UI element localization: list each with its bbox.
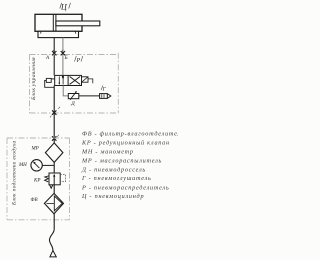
svg-text:Д: Д [70,101,75,107]
svg-text:Блок управления: Блок управления [31,57,37,101]
right position: crossed arrows [70,77,81,85]
svg-text:МН - манометр: МН - манометр [81,149,134,156]
node connection X (pipe Б at block boundary) [61,51,65,55]
wire throttle to muffler [79,95,100,97]
wire pipe A (cylinder to valve, supply side) [53,38,55,76]
svg-text:КР - редукционный клапан: КР - редукционный клапан [81,139,170,146]
wire trunk (lubricator to regulator) [53,162,55,173]
svg-text:Р: Р [76,58,81,64]
exhaust vent [50,185,53,188]
flexible hose to source [49,230,54,251]
label Г [101,86,107,93]
svg-text:Б: Б [64,56,68,61]
svg-text:ФВ - фильтр-влагоотделитель: ФВ - фильтр-влагоотделитель [82,131,178,138]
wire trunk (regulator to filter) [53,185,55,194]
wire trunk (filter to air inlet) [53,214,55,230]
label Ц (cylinder designator) [60,3,71,12]
svg-text:МН: МН [18,163,27,168]
node label А [45,50,54,61]
svg-text:МР: МР [31,147,39,152]
svg-text:Блок подготовки воздуха: Блок подготовки воздуха [10,141,17,206]
piston [52,14,54,31]
wire exhaust (valve to throttle) [63,86,68,96]
filter ФВ (diamond with separator) [44,193,63,213]
pressure regulator КР [45,173,66,188]
wire trunk (valve to air-prep unit) [53,86,55,143]
node connection X (trunk at control block lower boundary) [52,110,56,114]
control block enclosure (dash-dot) [30,53,119,113]
svg-text:МР - маслораспылитель: МР - маслораспылитель [81,158,162,165]
pressure gauge МН [31,160,42,171]
svg-text:Г - пневмоглушитель: Г - пневмоглушитель [81,175,152,182]
wire pipe Б (cylinder to valve, rod side) [62,38,64,76]
left position: parallel arrows [58,76,60,84]
label Р (valve designator) [75,56,83,64]
wire gauge stem [42,164,54,166]
piston rod [56,21,100,26]
legend [81,131,185,201]
svg-text:ФВ: ФВ [31,198,38,203]
mounting plate [38,31,79,37]
muffler Г [100,94,111,99]
svg-text:Д - пневмодроссель: Д - пневмодроссель [81,166,146,173]
throttle Д [68,91,79,100]
valve pilot box (left actuator) [45,78,55,87]
valve Р (4/2 directional valve) [55,75,82,85]
node connection X (trunk at air-prep boundary) [52,136,56,140]
air preparation unit enclosure (dash-dot) [7,138,70,220]
node connection X (pipe A at block boundary) [52,51,56,55]
svg-text:КР: КР [33,179,40,184]
spring [45,176,49,182]
solenoid actuator (right) [82,77,93,84]
pilot dashed loop [60,175,65,182]
junction dot (pipe Б at valve) [62,76,64,78]
svg-text:Ц - пневмоцилиндр: Ц - пневмоцилиндр [81,193,144,200]
lubricator МР (diamond) [45,143,63,163]
svg-text:Р - пневмораспределитель: Р - пневмораспределитель [81,184,169,191]
cylinder Ц body [35,14,100,37]
node label Б [62,50,68,61]
air source triangle [50,250,56,257]
